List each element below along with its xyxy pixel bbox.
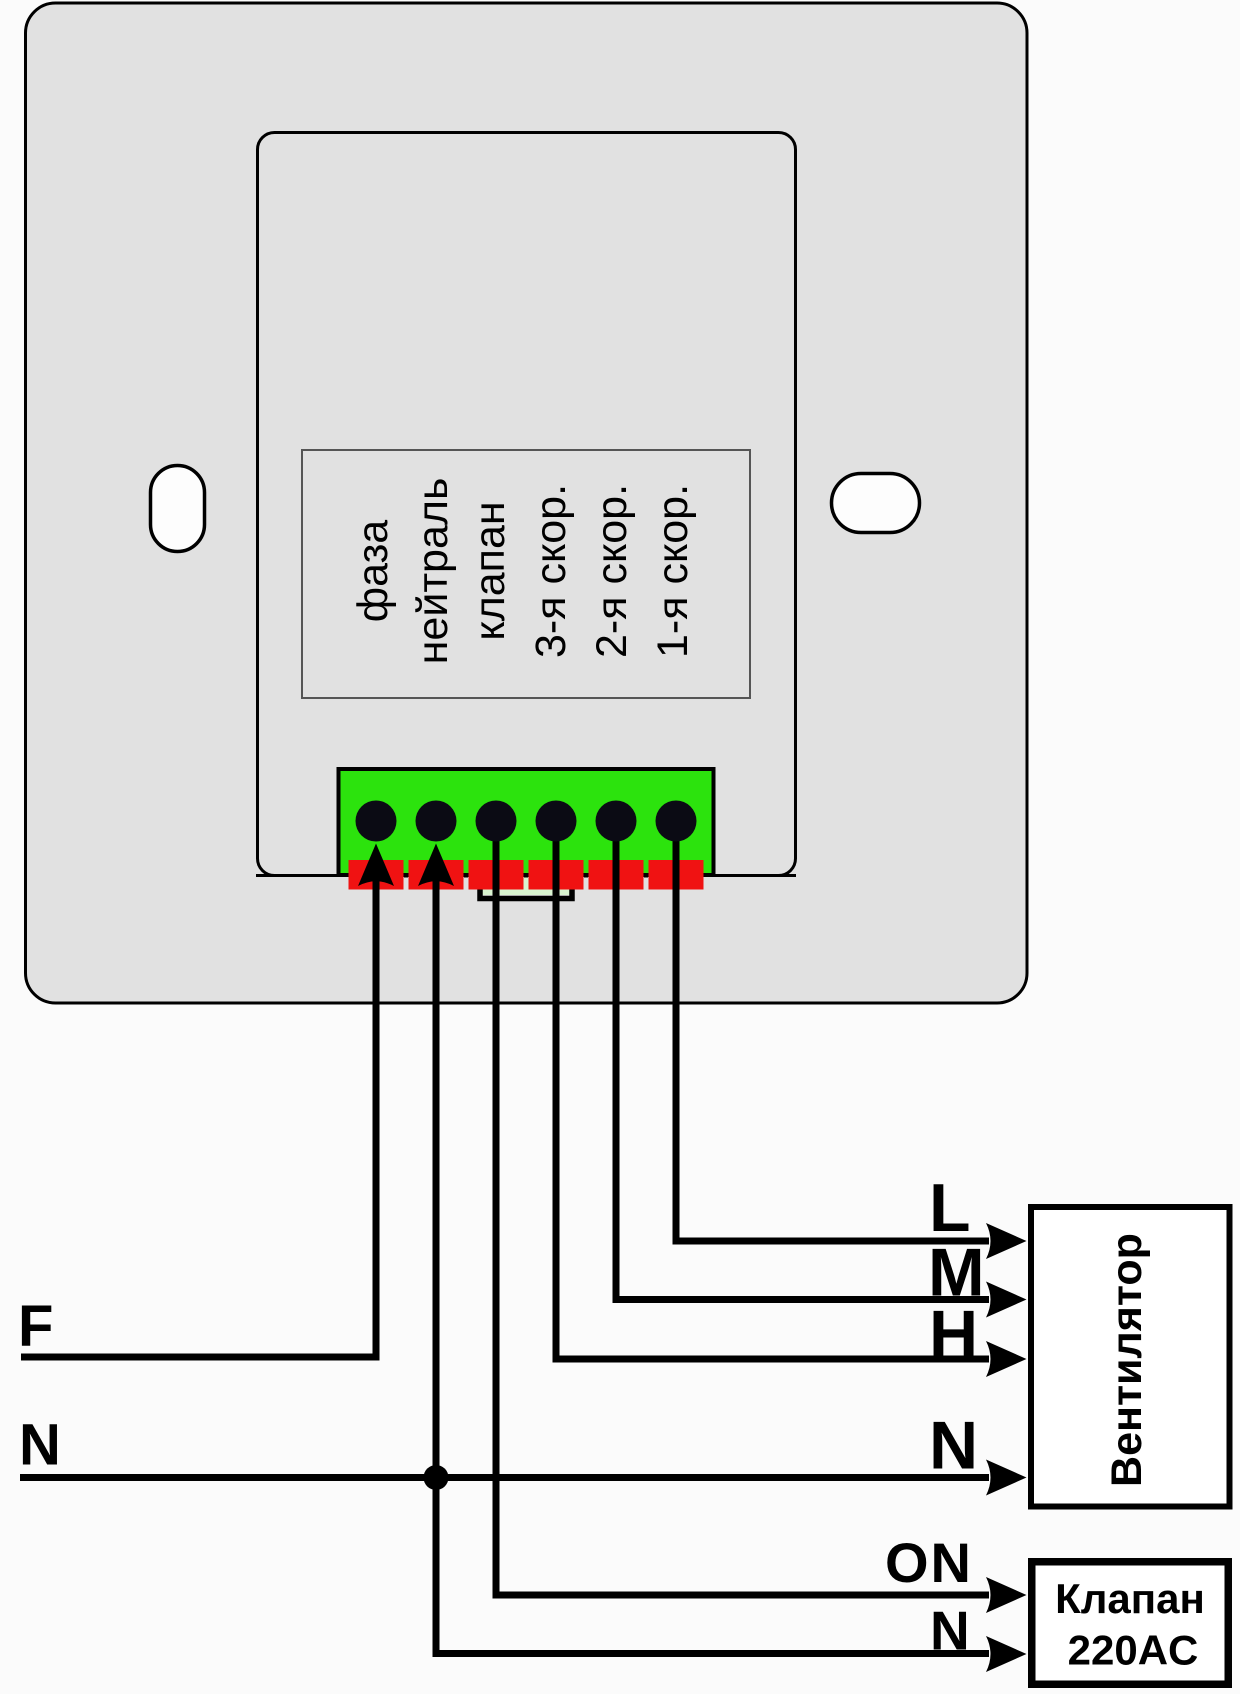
svg-text:ON: ON (885, 1531, 973, 1594)
inner panel bottom edge (256, 874, 796, 877)
clamp square 6 (649, 860, 704, 890)
arrow to fan L (986, 1223, 1027, 1259)
arrow into terminal 1 (358, 844, 394, 887)
terminal gap dots (404, 874, 408, 878)
wire terminal 2 to valve N (436, 880, 989, 1654)
wire terminal 6 to L (676, 821, 989, 1241)
mounting hole right (832, 474, 920, 533)
svg-text:N: N (930, 1600, 970, 1662)
clamp square 2 (409, 860, 464, 890)
wall plate (26, 3, 1028, 1003)
wire terminal 5 to M (616, 821, 989, 1300)
arrow to fan H (986, 1341, 1027, 1377)
svg-text:2-я скор.: 2-я скор. (588, 484, 636, 658)
terminal 2 (416, 801, 457, 842)
arrow to fan N (986, 1460, 1027, 1496)
svg-text:F: F (18, 1294, 53, 1359)
svg-text:фаза: фаза (349, 520, 397, 623)
inner panel (258, 133, 796, 876)
clamp square 1 (349, 860, 404, 890)
svg-text:Клапан: Клапан (1055, 1575, 1205, 1622)
connector tab (482, 877, 570, 895)
terminal 3 (476, 801, 517, 842)
clamp square 3 (469, 860, 524, 890)
fan box (1031, 1207, 1230, 1507)
arrow into terminal 2 (418, 844, 454, 887)
valve box (1032, 1562, 1229, 1685)
terminal block (339, 769, 714, 875)
terminal label box (302, 450, 750, 698)
svg-text:1-я скор.: 1-я скор. (649, 484, 697, 658)
wire terminal 3 to valve ON (496, 821, 989, 1595)
arrow to valve N (986, 1636, 1027, 1672)
terminal 1 (356, 801, 397, 842)
svg-text:220AC: 220AC (1068, 1627, 1199, 1674)
svg-text:3-я скор.: 3-я скор. (527, 484, 575, 658)
wire F to terminal 1 (21, 880, 376, 1357)
clamp square 4 (529, 860, 584, 890)
svg-text:Вентилятор: Вентилятор (1103, 1233, 1151, 1487)
wire N horizontal (20, 1474, 989, 1481)
terminal 5 (596, 801, 637, 842)
svg-text:клапан: клапан (466, 501, 514, 640)
junction dot (424, 1465, 449, 1490)
svg-text:H: H (929, 1297, 978, 1373)
arrow to fan M (986, 1282, 1027, 1318)
svg-text:N: N (929, 1408, 978, 1484)
wire terminal 4 to H (556, 821, 989, 1359)
terminal 4 (536, 801, 577, 842)
svg-text:нейтраль: нейтраль (409, 478, 457, 665)
arrow to valve ON (986, 1577, 1027, 1613)
mounting hole left (151, 466, 205, 552)
clamp square 5 (589, 860, 644, 890)
terminal 6 (656, 801, 697, 842)
svg-text:N: N (19, 1413, 61, 1478)
